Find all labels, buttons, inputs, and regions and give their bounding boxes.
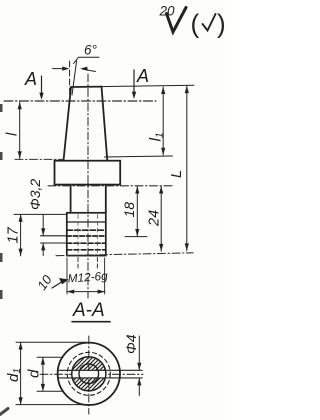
cross hole band lower line [58,377,142,379]
dimension 18 bottom extension [125,236,147,238]
dimension l bottom extension [15,158,64,160]
part bottom extension line [56,253,193,256]
part top edge [71,86,102,88]
dimension phi3.2 line [42,215,44,236]
vertical centerline of main view [87,74,89,298]
section title underline [72,321,110,323]
scan edge marks [0,104,8,415]
svg-text:L: L [169,170,185,178]
thread dimension line [67,291,105,293]
cross hole lower line [41,242,67,244]
small circle [79,364,99,384]
cone left edge [64,87,72,161]
svg-text:M12-6g: M12-6g [67,269,108,286]
6deg right arrow [83,69,96,71]
dimension d line [42,357,44,391]
flange bottom extension line [48,185,172,187]
middle circle [72,357,106,391]
thread dim extension left [66,258,68,294]
top edge extension line [102,85,195,86]
svg-text:A-A: A-A [72,300,105,321]
dimension 24 line [160,186,162,251]
thread runout line [67,221,105,223]
dimension phi4 line [138,336,140,370]
dimension 17 line [20,214,22,256]
svg-text:d: d [26,369,43,378]
thread inner dashed line 1 [67,229,105,231]
thread dashed circle [67,352,110,395]
roughness check symbol [167,8,187,33]
thread inner dashed line 2 [67,249,105,251]
dimension L line [186,86,188,251]
svg-text:24: 24 [147,210,163,227]
thread dim extension right [104,258,106,294]
dimension l1 line [162,87,164,155]
section line A-A [4,100,156,102]
bottom view horizontal centerline [40,373,143,375]
dimension d1 line [20,342,22,404]
svg-text:18: 18 [121,202,137,218]
6deg vertical reference dashed line [69,61,71,97]
dimension 17 top extension [14,213,66,215]
cylinder right edge [105,185,107,213]
6deg left arrow [53,68,67,70]
parenthesized check mark [203,14,216,31]
6deg leader [74,57,100,63]
dimension 18 line [136,186,138,236]
cross hole band upper line [58,369,142,371]
leader 10 line [52,281,64,289]
axial hole hidden line right [96,215,98,255]
dimension d extensions [37,356,63,358]
cross hole upper line [41,235,67,237]
svg-text:(: ( [191,9,200,39]
svg-text:6°: 6° [84,43,98,58]
svg-text:17: 17 [6,226,22,243]
axial hole hidden line left [77,215,79,255]
svg-text:): ) [217,9,226,39]
thread section outline [67,213,106,256]
dimension l line [19,102,21,159]
svg-text:Φ3,2: Φ3,2 [27,179,43,210]
svg-text:A: A [136,66,149,86]
section arrow left [41,76,43,94]
dimension l1 extension [105,156,173,157]
section arrow right [133,70,135,93]
6deg extended taper line [72,61,77,95]
cylinder left edge [70,185,72,213]
flange rectangle [55,161,121,185]
outer circle [58,343,120,405]
svg-text:A: A [24,69,37,89]
bottom view vertical centerline [88,336,90,414]
dimension d1 extensions [16,341,86,343]
svg-text:Φ4: Φ4 [123,334,139,354]
cone right edge [102,87,108,161]
hatching [48,354,148,394]
